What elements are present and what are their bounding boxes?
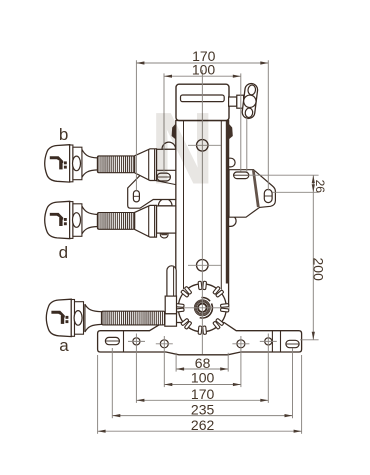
left wedge	[172, 124, 176, 140]
svg-text:262: 262	[191, 417, 215, 433]
oval hole b	[157, 173, 170, 181]
plate oval right	[286, 340, 299, 347]
crosshair top hole	[188, 144, 221, 146]
base plate	[98, 323, 302, 355]
right tab 2	[229, 216, 237, 227]
left bracket slot	[133, 191, 139, 202]
right bracket slot	[264, 189, 272, 202]
wing nut	[242, 83, 259, 119]
svg-text:68: 68	[195, 355, 211, 371]
handle a knob	[46, 299, 83, 336]
handle a block 1	[165, 296, 176, 314]
top hole	[197, 140, 209, 152]
ext 100 top left	[163, 73, 165, 171]
ext 100 bottom	[163, 336, 165, 387]
left bracket	[128, 170, 176, 208]
centerline	[201, 70, 203, 354]
crosshair mid hole	[188, 264, 221, 266]
left bracket seam	[156, 181, 176, 185]
dim 235	[112, 415, 292, 417]
ext 170 top left	[135, 60, 137, 190]
svg-text:100: 100	[192, 61, 216, 77]
dim 26/200 line	[312, 175, 314, 340]
clamp jaw b dome	[162, 142, 176, 149]
housing slot	[181, 95, 225, 102]
arrows	[98, 61, 315, 432]
dim 100 top	[164, 75, 241, 77]
handle a neck	[85, 304, 102, 332]
clamp jaw b	[157, 149, 176, 183]
svg-text:b: b	[59, 125, 68, 144]
dim 68	[176, 368, 228, 370]
handle a lever	[167, 266, 176, 296]
top housing	[176, 84, 229, 120]
svg-text:N: N	[150, 92, 214, 206]
svg-text:235: 235	[191, 401, 215, 417]
handle a ribs	[102, 311, 165, 325]
svg-text:170: 170	[191, 386, 215, 402]
ext 235	[111, 348, 113, 418]
gear hub	[201, 298, 210, 302]
ext 68	[175, 353, 177, 372]
plate hole 1	[133, 338, 140, 345]
dim 262	[98, 430, 302, 432]
plate oval left	[105, 337, 119, 344]
right bracket	[229, 170, 275, 218]
handle a block 2	[165, 314, 177, 326]
clamp jaw d dome	[158, 199, 172, 206]
ext 262	[97, 355, 99, 434]
ref 200 bottom	[300, 339, 319, 341]
clamp jaw d	[157, 206, 176, 233]
handle b group	[45, 145, 157, 182]
handle d group	[45, 201, 157, 238]
crosshair plate holes	[128, 340, 145, 342]
ext 170 top right	[267, 60, 269, 190]
crosshair gear	[184, 307, 221, 309]
ext 100 top right	[240, 73, 242, 171]
dim 170 bottom	[136, 399, 268, 401]
right tab 1	[229, 158, 235, 167]
svg-text:200: 200	[311, 258, 327, 282]
construction lines	[98, 60, 319, 434]
dim 170 top	[136, 62, 268, 64]
svg-text:100: 100	[191, 370, 215, 386]
right bracket fold	[252, 170, 260, 207]
ext 170 bottom	[135, 334, 137, 403]
plate hole 4	[265, 338, 272, 345]
clamp jaw d bottom tab	[160, 233, 168, 238]
ref 26 top	[248, 174, 318, 176]
right bracket oval	[234, 172, 249, 179]
svg-text:26: 26	[313, 180, 327, 194]
dim 100 bottom	[164, 384, 241, 386]
labels	[59, 125, 70, 355]
wing bolt stem	[229, 97, 237, 106]
plate hole 3	[237, 340, 245, 348]
dimension texts	[191, 48, 327, 433]
ref 26 bottom	[273, 191, 319, 193]
svg-text:a: a	[59, 336, 69, 355]
svg-text:d: d	[59, 243, 68, 262]
gear	[176, 281, 229, 334]
right wedge	[229, 124, 233, 140]
column	[172, 121, 233, 309]
mid hole	[197, 260, 209, 272]
plate hole 2	[160, 340, 168, 348]
